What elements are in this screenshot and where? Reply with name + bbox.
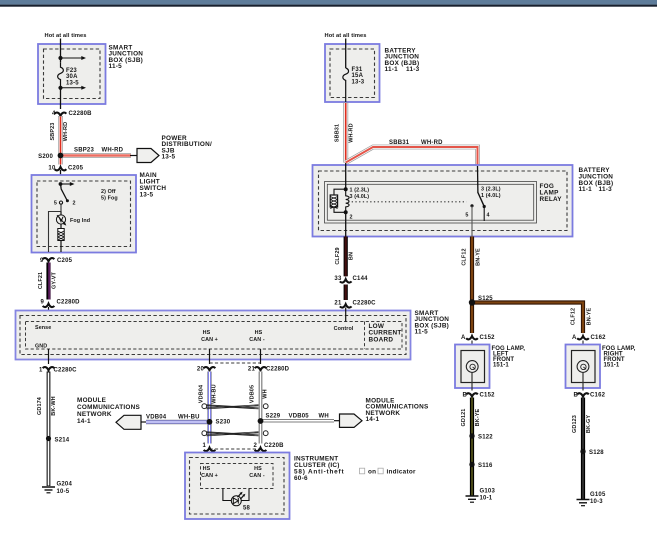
svg-text:5: 5 [54,201,57,207]
label SJB [415,310,450,336]
node relay pin 5 [470,204,473,207]
connector C220B dashed link [210,448,261,450]
svg-text:4: 4 [487,213,490,219]
svg-text:COMMUNICATIONS: COMMUNICATIONS [77,404,141,411]
wire VDB05 vertical [259,372,263,444]
svg-text:SBP23: SBP23 [50,123,56,141]
svg-text:21: 21 [248,367,256,373]
svg-text:5) Fog: 5) Fog [101,196,118,202]
label main light switch [140,172,167,198]
svg-text:C2280D: C2280D [266,367,290,373]
svg-text:13-5: 13-5 [140,191,154,198]
svg-text:WH-RD: WH-RD [349,123,355,142]
svg-text:4: 4 [52,111,56,117]
svg-text:F31: F31 [352,67,363,73]
svg-text:SBB31: SBB31 [389,140,410,146]
wire stubs into IC [209,452,211,464]
connector C2280C pin 1 [39,367,77,373]
off-page connector (left) [116,415,141,429]
wire GND stub [48,349,50,364]
connector C2280D pin 20 [197,367,215,373]
connector C220B pin 2 [253,443,284,451]
svg-text:GD121: GD121 [461,409,467,427]
connector C2280D pin 21 [248,367,290,373]
svg-text:GD174: GD174 [37,396,43,415]
svg-text:S125: S125 [478,296,493,302]
contact 5 [59,201,62,204]
fog lamp right front [566,345,601,389]
svg-text:13-5: 13-5 [162,154,176,161]
svg-text:C162: C162 [591,335,607,341]
svg-text:S116: S116 [478,463,493,469]
connector C220B pin 1 [202,443,215,451]
svg-text:11-1: 11-1 [579,186,593,193]
wire branch arrow top [61,56,87,60]
label BJB [385,48,420,74]
wire CLF21 GY-VT [46,263,51,300]
wire into switch [58,156,63,165]
svg-text:HS: HS [203,466,211,472]
relay coil loop [334,189,346,212]
connector C205 pin 10 [48,166,83,172]
svg-text:CLF21: CLF21 [38,272,44,289]
wire GD121 BK-YE [470,398,474,496]
node relay pin 4 [483,205,486,208]
svg-text:2: 2 [253,443,257,449]
relay actuation dotted line [348,201,467,203]
svg-text:10-5: 10-5 [57,489,70,495]
off-page connector POWER DISTRIBUTION [137,149,159,163]
node branch dot top [58,56,62,60]
wire SBB31 WH-RD vertical [343,103,348,163]
wire SBP23 WH-RD horizontal [61,153,132,158]
wire into relay contact [477,166,479,193]
connector C2280D dashed link [210,362,261,364]
svg-text:151-1: 151-1 [493,363,509,369]
label BJB (relay) [579,167,614,193]
wire VDB04 vertical [207,372,211,444]
svg-text:RELAY: RELAY [540,196,563,203]
svg-text:Fog Ind: Fog Ind [70,218,90,224]
svg-text:G204: G204 [57,482,73,488]
svg-text:HS: HS [255,330,263,336]
wire lamp to pin B [471,372,473,390]
wire from contact 5 [49,204,62,252]
svg-text:14-1: 14-1 [77,418,91,425]
node relay pin 2 [344,210,348,214]
node HS CAN+ [201,330,218,343]
wire internal arrow [61,182,75,186]
connector C144 pin 33 [334,276,368,283]
svg-text:10: 10 [48,166,56,172]
svg-text:C162: C162 [590,393,606,399]
svg-text:SBB31: SBB31 [335,124,341,142]
top header bar [0,0,657,5]
wire into LCB control [345,308,347,322]
wire CLF12 BN-YE (relay to S125) [470,237,474,303]
wire CAN+ stub [209,349,211,364]
svg-text:HS: HS [203,330,211,336]
splice S229 dot [258,418,264,424]
label switch positions [101,189,118,202]
svg-text:S214: S214 [55,438,70,444]
svg-text:F23: F23 [66,68,77,74]
svg-text:BK-WH: BK-WH [51,396,57,415]
svg-text:WH-RD: WH-RD [421,140,443,146]
wire fuse to box bottom [60,88,62,109]
fog lamp left front [455,345,490,389]
svg-text:10-3: 10-3 [590,499,603,505]
splice S229 [258,419,263,424]
splice S128 [580,449,585,454]
node relay pin 1/3 [344,187,348,191]
svg-text:S230: S230 [216,420,231,426]
fuse F31 15A [343,68,349,102]
svg-text:Control: Control [334,326,354,332]
connector C2280B pin 4 [52,111,92,117]
svg-text:11-5: 11-5 [109,63,123,70]
svg-text:BN-YE: BN-YE [587,307,593,325]
svg-text:58: 58 [243,506,251,512]
indicator LED 58 [231,492,250,512]
svg-text:GND: GND [35,344,47,350]
connector C152 pin A [461,335,495,341]
svg-text:WH-RD: WH-RD [63,122,69,141]
svg-text:CAN -: CAN - [249,337,265,343]
splice S214 [46,436,51,441]
wire VDB04 WH-BU horizontal [146,420,210,424]
smart junction box SJB (fuse box) [38,44,106,104]
svg-text:CAN -: CAN - [249,473,265,479]
svg-text:33: 33 [334,276,342,282]
wire pin2 to box edge [345,212,347,236]
svg-text:Sense: Sense [35,325,51,331]
svg-text:C144: C144 [353,276,369,282]
wire branch arrow bottom [61,86,87,90]
label module communications network (left) [77,397,141,425]
svg-text:1: 1 [39,368,43,374]
svg-text:Hot at all times: Hot at all times [45,33,87,39]
svg-text:indicator: indicator [387,468,416,475]
wire SBP23 WH-RD vertical [58,116,63,156]
svg-text:3 (2.3L): 3 (2.3L) [481,187,501,193]
svg-text:14-1: 14-1 [366,416,380,423]
splice S116 [469,462,474,467]
smart junction box (low current board) [16,311,411,360]
label fog lamp right [602,346,636,369]
svg-text:C205: C205 [68,166,84,172]
wire CAN- stub [260,349,262,364]
svg-text:B: B [462,393,467,399]
svg-text:on: on [368,468,376,475]
wire VDB05 WH horizontal [261,419,335,422]
wire stub [334,420,340,422]
svg-text:A: A [461,335,466,341]
svg-text:CLF12: CLF12 [571,308,577,325]
svg-text:VDB04: VDB04 [199,384,205,403]
svg-text:10-1: 10-1 [480,496,493,502]
svg-text:20: 20 [197,367,205,373]
svg-text:Hot at all times: Hot at all times [325,33,367,39]
svg-text:G105: G105 [590,492,606,498]
svg-text:BN: BN [349,252,355,260]
svg-text:GY-VT: GY-VT [52,271,58,289]
svg-text:151-1: 151-1 [604,363,620,369]
label instrument cluster [294,455,416,482]
svg-text:11-5: 11-5 [415,329,429,336]
svg-text:WH: WH [319,414,329,420]
resistor (coil) [58,229,64,241]
svg-text:WH-RD: WH-RD [102,148,124,154]
wire into F31 [345,39,347,69]
svg-text:11-3: 11-3 [406,66,420,73]
wire GD174 BK-WH [47,372,51,487]
svg-text:BN-YE: BN-YE [476,248,482,266]
wire lamp to resistor [60,224,62,228]
svg-text:9: 9 [40,258,44,264]
svg-text:S200: S200 [38,154,53,160]
fog lamp relay body [325,182,537,224]
svg-text:S122: S122 [478,435,493,441]
svg-text:VDB04: VDB04 [146,415,167,421]
svg-text:C152: C152 [480,335,496,341]
main light switch box [32,175,137,253]
svg-text:1: 1 [202,443,206,449]
wire lamp to pin B [582,372,584,390]
svg-text:SBP23: SBP23 [74,148,94,154]
svg-text:G103: G103 [480,489,496,495]
wire into F23 [60,39,62,63]
wire resistor to box edge [60,241,62,253]
svg-text:15A: 15A [352,73,364,79]
wire GD123 BK-GY [581,398,585,500]
svg-text:C2280D: C2280D [57,300,81,306]
svg-text:9: 9 [40,300,44,306]
svg-text:A: A [572,335,577,341]
wire SBB31 WH-RD branch to relay contact [346,147,478,166]
svg-text:MODULE: MODULE [77,397,107,404]
svg-text:S128: S128 [589,450,604,456]
instrument cluster box [185,453,290,520]
wire stub to off-page arrow [130,155,137,157]
connector C2280C pin 21 [334,301,376,308]
svg-text:B: B [573,393,578,399]
splice S230 [207,419,213,425]
ground G204 [42,482,72,496]
svg-text:WH-BU: WH-BU [178,415,200,421]
splice S125 [469,299,475,305]
svg-text:S229: S229 [266,414,281,420]
connector C162 pin B [573,393,605,399]
label low current board [369,323,402,344]
svg-text:BOARD: BOARD [369,336,394,343]
svg-text:30A: 30A [66,74,78,80]
node HS CAN- [249,330,265,343]
svg-text:WH: WH [263,389,269,398]
ground G105 [577,492,606,506]
connector C205 pin 9 [40,258,73,264]
svg-text:13-3: 13-3 [352,79,365,85]
node feed dot [59,182,63,186]
svg-text:CLF12: CLF12 [462,248,468,265]
svg-text:21: 21 [334,301,342,307]
svg-text:CLF29: CLF29 [335,247,341,264]
label module communications network (right) [366,397,430,423]
twisted pair symbol upper [202,404,268,409]
relay winding box [330,195,337,209]
wire into right fog lamp [582,341,584,362]
svg-text:13-5: 13-5 [66,80,79,86]
svg-text:VDB05: VDB05 [289,414,310,420]
battery junction box (relay housing) [313,165,573,237]
wire stub [141,421,148,423]
svg-text:1 (2.3L): 1 (2.3L) [350,188,370,194]
svg-text:BK-GY: BK-GY [586,415,592,433]
ground G103 [466,489,496,503]
wire CLF12 BN-YE branch to right lamp [472,303,583,334]
wire into relay coil [345,163,347,189]
wire CLF29 BN segment 2 [344,285,348,301]
label fog lamp relay [540,183,563,203]
svg-text:NETWORK: NETWORK [77,411,112,418]
svg-text:CAN +: CAN + [201,337,218,343]
svg-text:BK-YE: BK-YE [475,408,481,426]
splice S122 [469,433,474,438]
svg-text:3 (4.0L): 3 (4.0L) [350,194,370,200]
relay switch blade [478,193,484,206]
svg-text:60-6: 60-6 [294,475,308,482]
svg-text:2: 2 [350,215,353,221]
svg-text:2: 2 [73,201,76,207]
wire into left fog lamp [471,341,473,362]
node HS CAN- (IC) [249,466,265,479]
connector C162 pin A [572,335,606,341]
svg-text:C2280C: C2280C [54,368,78,374]
relay coil (center) [346,189,349,212]
svg-text:HS: HS [254,466,262,472]
off-page connector (right) [340,414,363,427]
splice S200 [58,153,64,159]
svg-text:VDB05: VDB05 [250,385,256,403]
bracket wires to indicator [223,489,249,501]
wire CLF12 down to left lamp [470,303,474,334]
svg-text:WH-BU: WH-BU [212,384,218,403]
svg-text:C220B: C220B [264,443,284,449]
connector C152 pin B [462,393,495,399]
svg-text:CAN +: CAN + [201,473,218,479]
node branch dot bottom [58,86,62,90]
wire CLF29 BN [344,237,348,277]
svg-text:C2280C: C2280C [353,301,377,307]
svg-text:1 (4.0L): 1 (4.0L) [481,193,501,199]
svg-text:5: 5 [465,213,468,219]
svg-text:GD123: GD123 [572,415,578,433]
svg-text:C205: C205 [57,258,73,264]
node HS CAN+ (IC) [201,466,218,479]
battery junction box BJB (fuse box) [325,44,380,102]
label SJB [109,45,144,71]
svg-text:2) Off: 2) Off [101,189,116,195]
fuse F23 30A [58,62,64,88]
svg-text:C152: C152 [480,393,496,399]
label fog lamp left [492,346,526,369]
twisted pair symbol lower [202,431,268,436]
svg-text:11-1: 11-1 [385,66,399,73]
switch blade [61,184,67,200]
svg-text:C2280B: C2280B [69,111,93,117]
svg-text:11-3: 11-3 [599,186,613,193]
wire into LCB [48,307,50,322]
connector C2280D pin 9 [40,300,80,308]
lamp Fog Ind [56,215,90,226]
